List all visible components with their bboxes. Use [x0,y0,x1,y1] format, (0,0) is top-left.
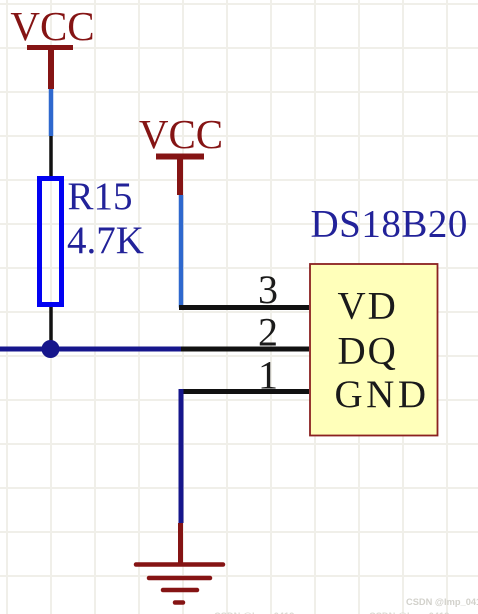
svg-text:R15: R15 [68,175,133,218]
svg-text:2: 2 [258,310,278,355]
svg-text:3: 3 [258,267,278,312]
svg-text:VD: VD [338,285,398,328]
svg-text:DQ: DQ [338,330,398,373]
svg-text:DS18B20: DS18B20 [311,203,468,246]
svg-text:VCC: VCC [10,3,94,49]
svg-text:1: 1 [258,353,278,398]
svg-text:4.7K: 4.7K [67,219,144,262]
svg-text:GND: GND [335,373,430,416]
svg-text:CSDN @lmp_04190: CSDN @lmp_04190 [406,597,478,607]
svg-text:VCC: VCC [139,111,223,157]
